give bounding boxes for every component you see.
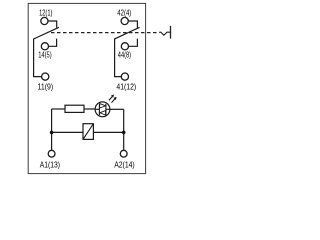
mechanical link (dashed) [51, 32, 159, 34]
contact armature K1 [34, 27, 59, 39]
coil A1-A2 [83, 124, 93, 140]
terminal 44(8) [121, 43, 128, 50]
relay outline frame [28, 3, 145, 173]
wire LED to right rail [110, 108, 124, 110]
terminal A2(14) [120, 150, 127, 157]
junction left [50, 131, 54, 135]
LED light arrows [109, 95, 116, 103]
wire 12 stub [48, 21, 57, 28]
wire pole 11 [34, 39, 42, 77]
terminal 42(4) [121, 17, 128, 24]
svg-text:44(8): 44(8) [118, 49, 131, 59]
terminal A1(13) [48, 150, 55, 157]
svg-text:14(5): 14(5) [38, 49, 52, 59]
svg-text:A2(14): A2(14) [114, 159, 135, 169]
test button S1 [159, 32, 170, 35]
wire 44 stub [129, 39, 138, 47]
svg-text:12(1): 12(1) [39, 8, 52, 18]
svg-text:11(9): 11(9) [38, 81, 54, 91]
junction right [122, 131, 126, 135]
terminal 14(5) [41, 43, 48, 50]
wire coil branch left [52, 131, 83, 133]
svg-text:42(4): 42(4) [117, 8, 131, 18]
wire coil branch right [93, 131, 123, 133]
contact armature K2 [115, 27, 140, 39]
LED D1 [95, 102, 110, 117]
wire pole 41 [115, 38, 122, 76]
wire resistor to LED [84, 108, 95, 110]
terminal 11(9) [42, 73, 49, 80]
coil diagonal [83, 124, 93, 140]
terminal 12(1) [41, 17, 48, 24]
svg-text:A1(13): A1(13) [40, 159, 60, 169]
wire 14 stub [49, 39, 57, 47]
wire 42 stub [128, 21, 137, 28]
terminal 41(12) [121, 73, 128, 80]
resistor R1 [65, 105, 84, 112]
wire top branch left [52, 108, 65, 110]
svg-text:41(12): 41(12) [116, 81, 136, 91]
wire left rail [51, 109, 53, 150]
wire right rail [123, 109, 125, 150]
